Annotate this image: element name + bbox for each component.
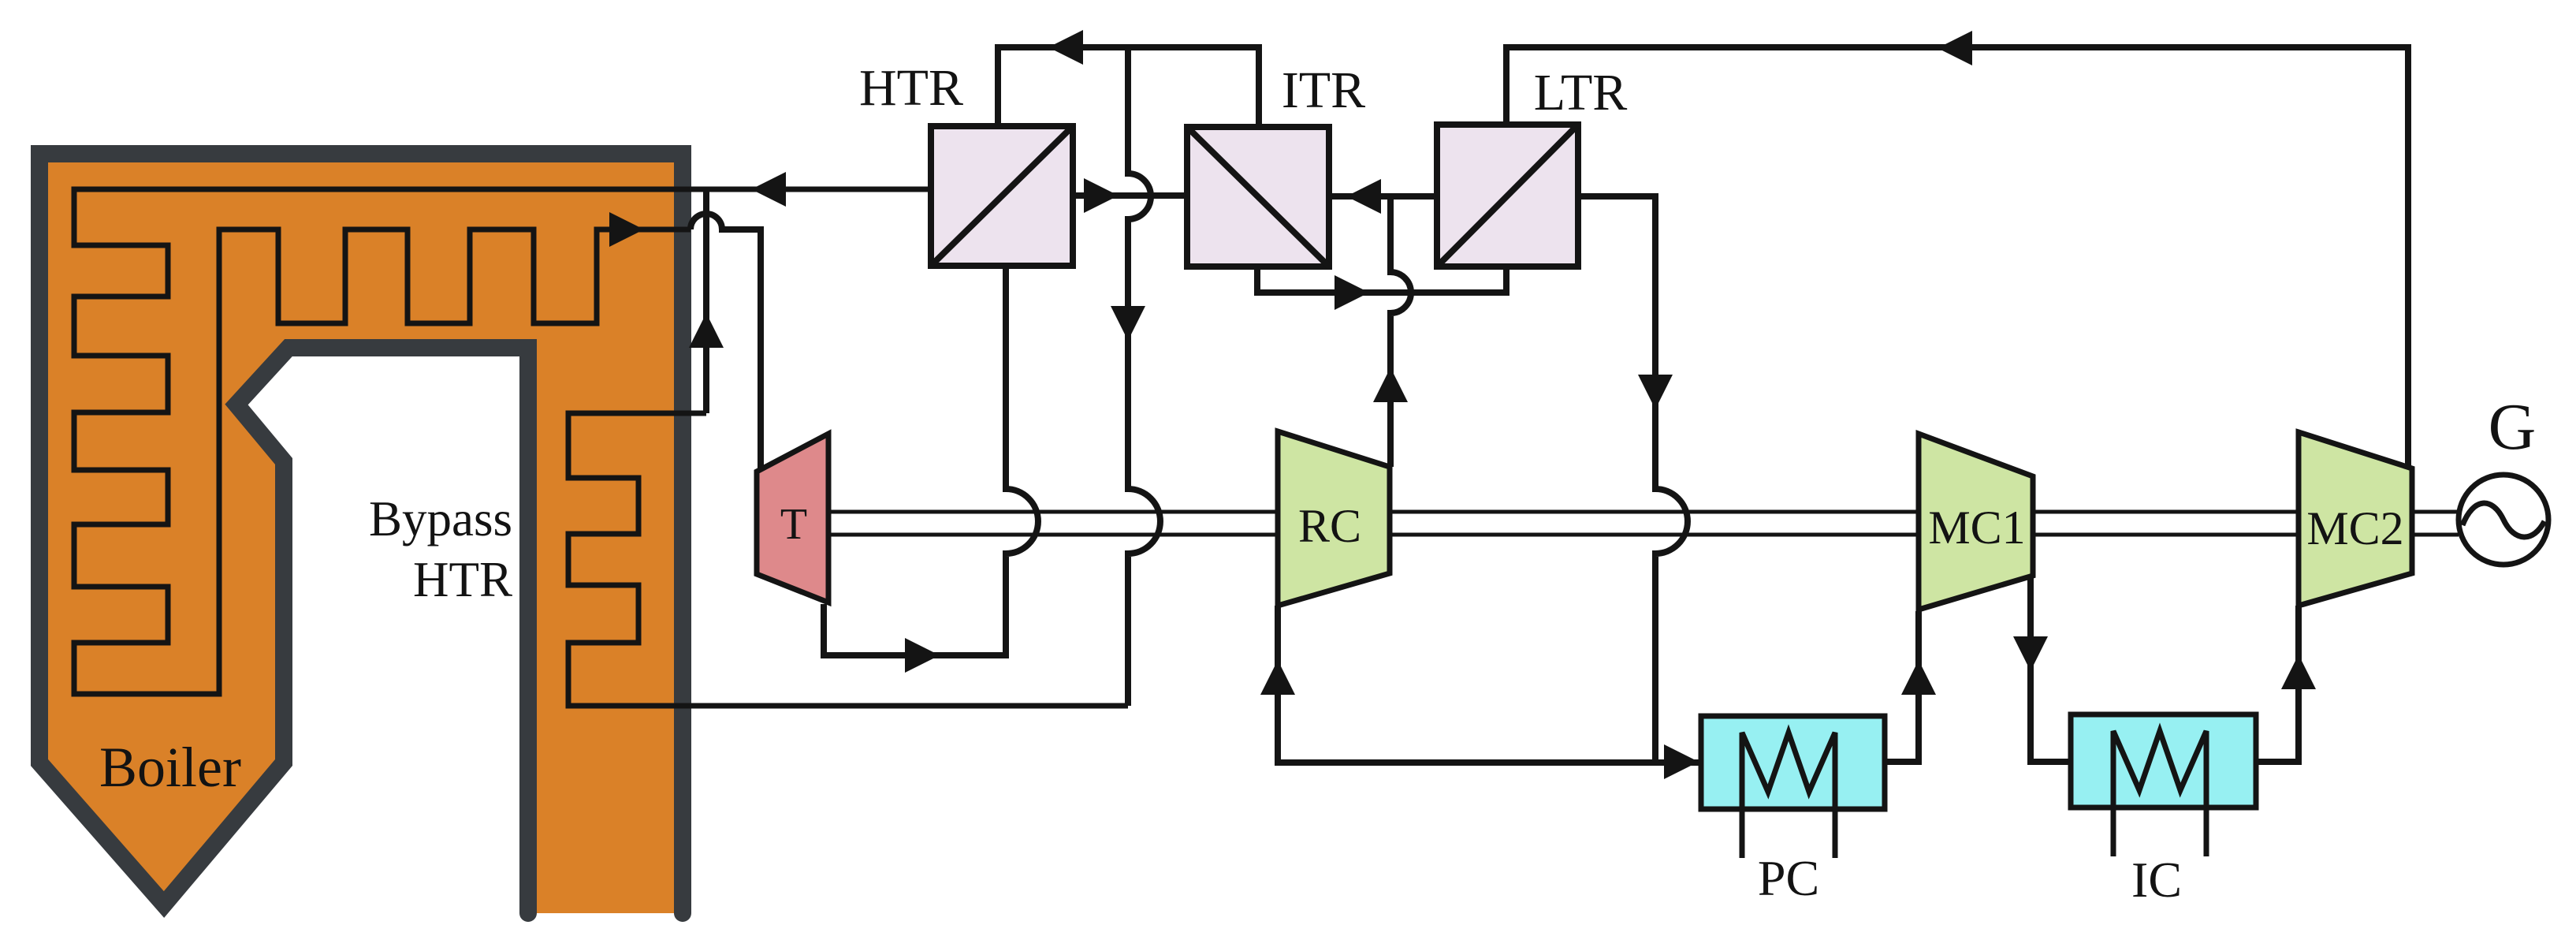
arrow into boiler (main inlet) [751,172,786,207]
PC to MC1 riser [1885,611,1919,762]
arrow LTR to ITR [1346,179,1381,214]
boiler main serpentine coil [74,189,931,694]
generator G [2459,475,2548,565]
arrow bypass feed down [1111,306,1145,341]
svg-text:MC2: MC2 [2306,502,2403,554]
shaft upper line [828,510,2459,514]
arrow RC riser up [1373,367,1408,402]
bottom manifold RC corner to PC [1278,606,1701,763]
arrow HTR to ITR [1084,178,1119,213]
recuperator ITR [1187,127,1329,267]
svg-text:HTR: HTR [859,59,963,117]
arrow turbine exhaust [905,638,940,673]
svg-text:T: T [780,500,807,549]
recuperator HTR [931,126,1073,266]
ITR bottom to LTR bottom [1257,267,1506,293]
top return line: MC2 outlet to LTR top [1506,47,2408,468]
bypass riser up to main inlet line [703,189,709,413]
recompressor RC [1278,431,1390,606]
recuperator LTR [1437,125,1578,267]
svg-text:HTR: HTR [413,552,512,607]
bypass feed line from top junction down to bottom manifold (hop over y=249 line and shaft) [1128,47,1160,706]
arrow top return to LTR [1938,31,1972,65]
LTR left to ITR right [1329,193,1437,200]
HTR right to ITR left [1073,192,1186,199]
shaft lower line [828,533,2459,537]
RC discharge riser with hop over y=371 [1390,196,1411,467]
svg-text:MC1: MC1 [1928,502,2025,554]
svg-text:RC: RC [1298,500,1361,552]
svg-text:ITR: ITR [1282,62,1365,119]
arrow ITR bottom to LTR bottom [1335,275,1369,310]
main compressor MC2 [2299,432,2412,606]
arrow into HTR top [1048,30,1083,65]
MC1 outlet down to IC [2031,576,2071,762]
LTR right outlet down to bottom manifold (hop over shaft) [1578,196,1688,763]
arrow serpentine exit [609,212,644,247]
arrow IC to MC2 [2281,655,2316,689]
arrow LTR line down [1638,375,1673,409]
serpentine exit line with hop over bypass riser, down to turbine [691,214,761,471]
bypass HTR coil (right column) [568,413,1128,706]
turbine T [757,434,828,602]
IC to MC2 riser [2255,606,2299,762]
turbine exhaust to HTR bottom (hop over shaft) [824,266,1038,655]
arrow MC1 to IC [2013,636,2048,671]
boiler body (orange with dark outline, notch cut-out) [39,154,683,913]
svg-text:IC: IC [2131,852,2182,908]
arrow bypass riser up [689,313,724,348]
arrow manifold to PC [1664,744,1699,779]
HTR top loop: ITR top to HTR top [998,47,1259,127]
main compressor MC1 [1919,434,2033,610]
arrow PC to MC1 [1901,660,1936,695]
intercooler IC [2071,714,2256,856]
svg-text:Boiler: Boiler [99,736,241,799]
svg-text:PC: PC [1758,850,1819,906]
svg-text:G: G [2489,390,2537,464]
precooler PC [1701,716,1885,858]
svg-text:Bypass: Bypass [369,491,512,546]
svg-text:LTR: LTR [1534,64,1628,121]
arrow RC inlet up [1260,660,1295,695]
